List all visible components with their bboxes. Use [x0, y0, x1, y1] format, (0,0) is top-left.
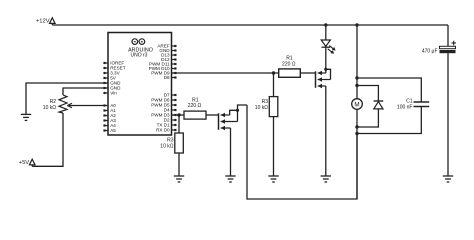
- U1 right pin stubs: [172, 45, 177, 131]
- transistor Q2: [316, 69, 331, 88]
- svg-text:220 Ω: 220 Ω: [282, 61, 296, 67]
- wire wiper to A0: [67, 103, 104, 108]
- potentiometer R2: [43, 95, 67, 113]
- wire Q1 drain to motor return: [247, 105, 357, 199]
- svg-text:UNO r3: UNO r3: [131, 53, 148, 59]
- svg-text:10 kΩ: 10 kΩ: [160, 143, 173, 149]
- ground (left): [21, 114, 31, 120]
- resistor R1 (gate Q1): [184, 98, 206, 120]
- ground (C2): [443, 176, 453, 182]
- wire R3 to ground: [273, 117, 275, 176]
- svg-text:RX D0: RX D0: [156, 128, 170, 133]
- ground (Q2 source): [321, 176, 331, 182]
- wire GND2 to potentiometer top: [63, 88, 108, 95]
- svg-text:D8: D8: [164, 75, 170, 80]
- resistor R3 (pulldown D9): [255, 97, 278, 117]
- node motor rail junction: [355, 23, 358, 26]
- svg-text:+5V: +5V: [19, 160, 30, 166]
- svg-text:C1: C1: [406, 98, 413, 104]
- resistor R1 (gate Q2): [279, 56, 301, 78]
- resistor R3 (pulldown D3): [160, 133, 183, 153]
- wire Q1 source to ground: [230, 128, 232, 176]
- wire LED cathode to Q2 drain: [325, 47, 327, 69]
- power +5V: [19, 159, 35, 166]
- svg-text:10 kΩ: 10 kΩ: [43, 105, 56, 111]
- motor M: [352, 99, 363, 110]
- wire D9 junction down to R3: [273, 73, 275, 97]
- node diode bottom junction: [355, 125, 358, 128]
- node Q2 drain junction: [324, 68, 327, 71]
- node C1 top junction: [355, 76, 358, 79]
- wire D3 junction down to R3: [178, 115, 180, 133]
- power +12V: [36, 18, 55, 25]
- U1 left pin labels: [110, 61, 126, 134]
- svg-text:Vin: Vin: [110, 91, 117, 96]
- svg-text:A5: A5: [110, 128, 116, 133]
- capacitor C1: [357, 78, 429, 134]
- LED D1: [321, 40, 335, 54]
- node D9 junction: [272, 71, 275, 74]
- transistor Q1: [219, 105, 248, 130]
- wire C2 to ground: [447, 53, 449, 176]
- wire R1 to Q2 gate: [300, 72, 315, 74]
- svg-text:470 µF: 470 µF: [422, 48, 438, 54]
- diode D2 flyback: [357, 86, 383, 128]
- svg-text:100 nF: 100 nF: [397, 105, 413, 111]
- ground (Q1 source): [225, 176, 235, 182]
- node diode top junction: [355, 84, 358, 87]
- wire Q2 source to ground: [325, 86, 327, 176]
- wire motor bottom: [356, 109, 358, 198]
- ground (R3 pulldown D9): [268, 176, 278, 182]
- svg-text:220 Ω: 220 Ω: [188, 103, 202, 109]
- wire D9 to R1: [172, 72, 279, 74]
- U1 left pin stubs: [103, 62, 108, 132]
- node D3 junction: [177, 113, 180, 116]
- node C1 bottom junction: [355, 132, 358, 135]
- ground (R3 pulldown D3): [174, 176, 184, 182]
- wire +12V rail: [52, 24, 448, 26]
- wire rail down to motor: [356, 25, 358, 99]
- wire GND1 to ground: [26, 83, 108, 114]
- svg-text:M: M: [354, 101, 359, 108]
- wire potentiometer bottom to +5V: [32, 113, 63, 166]
- wire rail to LED: [325, 25, 327, 40]
- U1 right pin labels: [149, 44, 171, 133]
- wire R1 to Q1 gate: [206, 114, 219, 116]
- node LED rail junction: [324, 23, 327, 26]
- wire D3 to R1: [172, 114, 185, 116]
- svg-text:+12V: +12V: [36, 18, 50, 24]
- capacitor C2 470uF electrolytic: [422, 25, 456, 54]
- Arduino UNO module U1: [108, 33, 172, 136]
- svg-text:10 kΩ: 10 kΩ: [255, 105, 268, 111]
- wire R3 to ground: [178, 153, 180, 176]
